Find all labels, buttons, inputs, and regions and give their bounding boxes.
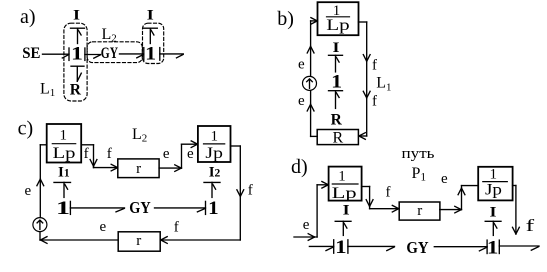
bond 1-junction to GY (causal stroke at 1, half-arrow at GY) — [85, 48, 101, 60]
effort source circle — [303, 76, 317, 90]
transfer block r (feedback) — [118, 232, 160, 251]
svg-text:e: e — [303, 217, 310, 233]
input wire e with arrowheads — [294, 182, 329, 241]
svg-text:d): d) — [291, 156, 308, 178]
svg-text:f: f — [372, 94, 377, 110]
svg-text:1: 1 — [145, 43, 156, 64]
transfer block r — [399, 202, 440, 220]
svg-text:SE: SE — [22, 45, 40, 62]
svg-text:R: R — [331, 111, 343, 128]
svg-text:I: I — [147, 8, 154, 24]
transfer block 1/Jp — [478, 167, 512, 201]
svg-text:c): c) — [18, 118, 34, 140]
bond first 1-junction to R (vertical, half-arrow down) — [71, 66, 84, 81]
svg-text:I2: I2 — [209, 164, 221, 180]
arrowhead up on left wire (upper) — [307, 46, 314, 53]
svg-text:f: f — [248, 182, 253, 198]
svg-text:e: e — [25, 183, 32, 199]
arrowhead down on right wire (lower) — [363, 91, 370, 98]
bond 1-junction to I2 (vertical, half-arrow up) — [204, 182, 220, 197]
feedback wire bottom with arrowhead into source — [40, 237, 240, 244]
svg-text:путь: путь — [402, 146, 435, 162]
transfer block R — [317, 130, 358, 147]
svg-text:1: 1 — [210, 129, 218, 145]
svg-text:e: e — [441, 171, 448, 187]
svg-text:1: 1 — [60, 127, 68, 143]
wire right branch (down from 1/Lp output) — [359, 22, 367, 136]
svg-text:e: e — [298, 56, 305, 72]
bond SE to 1-junction (half-arrow, causal stroke at 1) — [43, 48, 70, 60]
svg-text:e: e — [187, 146, 194, 162]
wire bottom left into R block — [311, 135, 318, 137]
arrowhead down on right wire — [237, 190, 244, 197]
svg-text:e: e — [298, 93, 305, 109]
svg-text:1: 1 — [487, 237, 499, 258]
svg-text:f: f — [107, 146, 112, 162]
wire left branch (up to 1/Lp input) — [311, 18, 318, 137]
bond GY to right 1-junction (half-arrow and causal stroke at 1) — [434, 240, 487, 253]
svg-text:1: 1 — [489, 167, 497, 183]
transfer block 1/Jp — [198, 126, 231, 162]
svg-text:R: R — [332, 130, 343, 147]
svg-text:f: f — [84, 146, 89, 162]
svg-text:r: r — [136, 161, 141, 177]
bond right 1-junction to I (vertical, half-arrow up) — [485, 221, 501, 235]
transfer block 1/Lp — [47, 124, 81, 163]
svg-text:R: R — [70, 82, 82, 99]
bond 1-junction to I (vertical, half-arrow up) — [329, 55, 343, 72]
output bond from right 1-junction (causal stroke, half-arrow out) — [499, 240, 539, 253]
bond 1-junction to I (vertical, half-arrow up) — [71, 28, 85, 43]
svg-text:1: 1 — [335, 237, 347, 258]
svg-text:GY: GY — [129, 198, 150, 217]
svg-text:1: 1 — [56, 198, 70, 219]
wire below source to feedback line — [39, 232, 41, 240]
arrowhead up on left wire (lower) — [307, 104, 314, 111]
bond left 1-junction to GY (causal stroke at 1, half-arrow at GY) — [70, 201, 124, 214]
wire right branch of c — [231, 146, 241, 240]
bond 1-junction to I1 (vertical, half-arrow up) — [54, 182, 71, 197]
bond left 1-junction to I (vertical, half-arrow up) — [335, 221, 351, 235]
svg-text:f: f — [526, 216, 535, 235]
svg-text:1: 1 — [331, 72, 342, 93]
wire left branch of c — [40, 145, 46, 218]
wire r to 1/Jp — [440, 186, 479, 213]
svg-text:e: e — [163, 146, 170, 162]
svg-text:I1: I1 — [58, 164, 70, 180]
svg-text:f: f — [386, 184, 391, 200]
svg-text:I: I — [333, 40, 340, 56]
svg-text:r: r — [417, 203, 422, 219]
svg-text:GY: GY — [101, 45, 118, 62]
bond 1-junction to R (vertical, half-arrow up style) — [329, 91, 343, 109]
bond GY to second 1-junction (half-arrow and causal stroke at 1) — [120, 48, 144, 61]
svg-text:I: I — [73, 8, 80, 24]
output bond from second 1-junction (causal stroke at 1, half-arrow out) — [160, 48, 184, 61]
dashed loop L2 (around GY) — [87, 42, 142, 63]
input bond into left 1-junction — [309, 240, 333, 253]
wire from middle r to 1/Jp — [159, 141, 198, 172]
dashed loop (around second 1-junction) — [143, 23, 164, 63]
transfer block r (middle) — [118, 159, 159, 178]
svg-text:I: I — [490, 205, 497, 221]
svg-text:I: I — [343, 202, 350, 218]
svg-text:Jp: Jp — [485, 182, 502, 199]
svg-text:GY: GY — [406, 238, 428, 257]
bond GY to right 1-junction (half-arrow and causal stroke at 1) — [155, 201, 206, 214]
svg-text:f: f — [174, 219, 179, 235]
svg-text:f: f — [372, 58, 377, 74]
bond left 1-junction to GY (causal stroke at 1) — [348, 240, 395, 253]
svg-text:e: e — [100, 219, 107, 235]
arrowhead down on right wire (upper) — [363, 55, 370, 62]
arrowhead up on left wire — [37, 179, 44, 186]
effort source circle — [33, 218, 47, 232]
svg-text:Lp: Lp — [326, 17, 350, 34]
wire bottom right into R block with arrowhead — [359, 133, 367, 140]
wire from 1/Lp output to middle r block — [81, 145, 118, 171]
svg-text:Lp: Lp — [332, 185, 357, 202]
svg-text:a): a) — [20, 6, 36, 28]
svg-text:r: r — [136, 233, 141, 249]
svg-text:Jp: Jp — [205, 145, 223, 162]
output wire from 1/Jp down — [513, 186, 520, 235]
svg-text:1: 1 — [338, 168, 346, 184]
svg-text:1: 1 — [208, 198, 219, 219]
svg-text:Lp: Lp — [53, 145, 76, 162]
transfer block 1/Lp — [329, 167, 362, 202]
dashed loop L1 (around first 1-junction and R) — [64, 23, 87, 101]
arrowhead into feedback r from right — [161, 237, 168, 244]
svg-text:b): b) — [277, 8, 294, 30]
bond second 1-junction to I (vertical, half-arrow up) — [143, 28, 157, 43]
wire 1/Lp output to r block — [362, 187, 399, 213]
transfer block 1/Lp — [318, 2, 359, 35]
svg-text:1: 1 — [71, 43, 83, 64]
